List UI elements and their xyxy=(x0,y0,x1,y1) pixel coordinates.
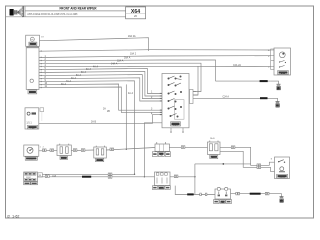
wire: 1081 output to pump line xyxy=(170,176,195,178)
wire: 1202 upper branch xyxy=(42,173,134,175)
inline dashes pairs on both branches xyxy=(108,173,112,178)
wire: switch pin C to ground MB (long) xyxy=(193,97,274,99)
svg-text:FRONT AND REAR WIPER: FRONT AND REAR WIPER xyxy=(60,6,97,11)
inline dashes xyxy=(200,193,207,196)
1202 connector stub box xyxy=(38,173,43,177)
svg-text:40A: 40A xyxy=(52,174,56,177)
svg-text:19: 19 xyxy=(41,37,44,39)
inline connector pair 4 xyxy=(81,149,85,152)
svg-text:APPLICABLE FROM 01-01-1998 UNT: APPLICABLE FROM 01-01-1998 UNTIL 31-12-1… xyxy=(27,12,77,16)
svg-text:A: A xyxy=(268,49,270,52)
wire: branch to relay row junction xyxy=(125,84,127,149)
wire: fuse box pin 8 into switch xyxy=(39,75,162,99)
svg-text:C2A 2A: C2A 2A xyxy=(233,64,241,67)
svg-text:2A: 2A xyxy=(103,107,106,110)
second wire with drop xyxy=(220,151,256,167)
svg-text:1/1 1: 1/1 1 xyxy=(26,122,32,125)
row1 wire segment 1083 to relay plate R2 xyxy=(106,148,155,151)
svg-text:12A A: 12A A xyxy=(117,60,124,63)
splice on pump ground wire xyxy=(250,193,261,195)
svg-text:B: B xyxy=(268,56,270,58)
switch 236 bottom pin stubs xyxy=(171,128,183,132)
wire: mid horizontal to rear switch feed xyxy=(195,163,251,165)
row1 wire segment R36 to 1083 xyxy=(71,149,94,152)
svg-text:8A A: 8A A xyxy=(81,71,86,74)
svg-text:7A A: 7A A xyxy=(66,80,71,83)
svg-text:2A B: 2A B xyxy=(91,121,96,124)
wire: fuse box pin 7 into switch xyxy=(39,71,162,96)
timer unit 419 label strip xyxy=(27,47,39,50)
svg-text:9A A: 9A A xyxy=(61,83,66,86)
front wiper relay 701 (left, middle) xyxy=(25,108,39,130)
wiper stalk switch 236 (centre) xyxy=(162,74,189,128)
header block separator lines xyxy=(6,6,126,17)
fuse holder 597b (bottom middle right) xyxy=(208,141,221,160)
intermittent wiper timer unit 419 (top-left small box) xyxy=(26,35,40,46)
junction unit R36 (bottom-left row 1, second) xyxy=(57,144,71,160)
washer pump 221 (bottom right) xyxy=(214,187,232,204)
inline connector pair 2 xyxy=(50,149,54,152)
vertical link down to pump feed xyxy=(194,164,196,195)
inline connector pair on this wire xyxy=(181,146,185,149)
inline connector dashes xyxy=(110,148,114,151)
switch 1093 feed bracket wires xyxy=(256,162,275,165)
svg-text:4A A: 4A A xyxy=(128,92,133,95)
rear wiper switch 419b (bottom far right) xyxy=(275,157,290,179)
clock / diagnostic socket 319 (bottom-left row 1) xyxy=(24,145,39,161)
washer timer unit 1081 (bottom centre) xyxy=(152,172,170,190)
fuse box 597 label strip xyxy=(28,90,37,94)
switch 236 internal contacts xyxy=(168,76,182,117)
wire R2 to fuse holder 597b xyxy=(169,146,208,148)
ground MB (bottom right) xyxy=(280,197,284,203)
junction unit 1083 (bottom-left row 1, third) xyxy=(94,146,107,163)
wire: pump 221 to ground MB rear xyxy=(231,194,282,197)
splice on lower branch xyxy=(82,176,91,178)
junction dots xyxy=(126,149,127,150)
svg-text:14A A: 14A A xyxy=(111,63,118,66)
relay 701 connector stub xyxy=(40,108,44,112)
svg-text:∅ 1-62: ∅ 1-62 xyxy=(7,214,19,218)
wire: fuse box pin 10 long drop to bottom row xyxy=(39,81,135,175)
inline dashes on 147 wire xyxy=(231,146,235,149)
svg-text:2B: 2B xyxy=(107,111,110,113)
svg-text:B: B xyxy=(271,158,273,160)
wire: fuse box pin 9 into switch xyxy=(39,78,162,101)
inline connector pair 3 xyxy=(73,149,77,152)
switch 236 left pin arrows xyxy=(160,93,162,115)
wire: fuse box pin 4 to stalk switch pin A xyxy=(39,63,201,91)
engine fuse box 597 (tall box) xyxy=(25,46,39,89)
svg-text:20A 2A: 20A 2A xyxy=(128,35,136,38)
wire: stalk switch pin B riser xyxy=(193,66,198,95)
splice on ground wire xyxy=(260,97,268,99)
inline dashes on 1093 feeds xyxy=(257,164,261,169)
svg-text:5A A: 5A A xyxy=(76,74,81,77)
svg-text:3A A: 3A A xyxy=(71,77,76,80)
svg-text:2A B: 2A B xyxy=(210,137,215,140)
inline connector pair 1 xyxy=(43,149,47,152)
wire: fuse box pin 2 to rear wiper motor xyxy=(39,56,271,58)
sheet number box X64 xyxy=(126,7,146,19)
wire: timer 419 to junction (long top wire) xyxy=(40,38,149,51)
svg-text:C24 A: C24 A xyxy=(223,96,230,99)
wire: pump feed to washer pumps 221 xyxy=(195,194,215,196)
splice on MH ground wire xyxy=(260,80,268,82)
pin stubs on fuse box outputs xyxy=(41,51,42,89)
wire: fuse box pin 11 into switch lower xyxy=(39,84,162,110)
svg-text:2: 2 xyxy=(43,147,45,149)
harness logo icon xyxy=(10,6,24,17)
svg-text:20: 20 xyxy=(134,14,137,18)
wire: fuse box pin 5 to rear wiper motor low xyxy=(39,65,271,67)
inline dashes xyxy=(236,192,269,195)
rear wiper motor 211 xyxy=(274,48,291,75)
wire: 1081 second pin drop to pump row xyxy=(175,186,195,195)
wire: motor return to ground MH xyxy=(216,80,271,82)
ground MB symbol (right of switch) xyxy=(274,98,280,107)
wire: fuse box pin 6 into switch xyxy=(39,68,162,93)
svg-text:1: 1 xyxy=(40,147,42,149)
dashed connector line under stub xyxy=(41,112,43,122)
svg-text:C: C xyxy=(268,67,270,69)
svg-text:6A A: 6A A xyxy=(86,68,91,71)
splice on pump feed line xyxy=(187,193,194,195)
inline dashes on 1081 output xyxy=(174,175,178,178)
wire: 1202 lower branch to washer timer 1081 xyxy=(38,176,155,178)
switch 236 right connector block xyxy=(190,90,199,104)
wire: relay 701 output into switch pin xyxy=(39,115,162,124)
row1 wire segment 319 to R36 xyxy=(39,150,57,152)
wire 597b to rear screen demist switch (two drops) xyxy=(220,147,256,165)
relay plate R2 (bottom middle) xyxy=(152,142,170,157)
svg-text:4A A: 4A A xyxy=(93,65,98,68)
svg-text:10A 2: 10A 2 xyxy=(130,53,137,56)
1202 label boxes below xyxy=(24,182,38,185)
motor 211 connector pin column xyxy=(268,49,274,70)
ground MH symbol xyxy=(271,81,281,90)
passenger compartment connection unit 1202 (bottom-left row 2) xyxy=(24,172,38,182)
wire labels (top fan) xyxy=(45,35,242,123)
wire: fuse box pin 12 into switch lower xyxy=(39,87,162,112)
wire: fuse box pin 3 to ground MH run xyxy=(39,60,216,81)
inline connector pair at 1202 output xyxy=(45,175,49,178)
wire: fuse box pin 1 to rear wiper motor feed xyxy=(39,50,271,52)
svg-text:16A A: 16A A xyxy=(124,56,131,59)
switch 236 bottom-left pin wire to bottom section xyxy=(144,123,162,177)
